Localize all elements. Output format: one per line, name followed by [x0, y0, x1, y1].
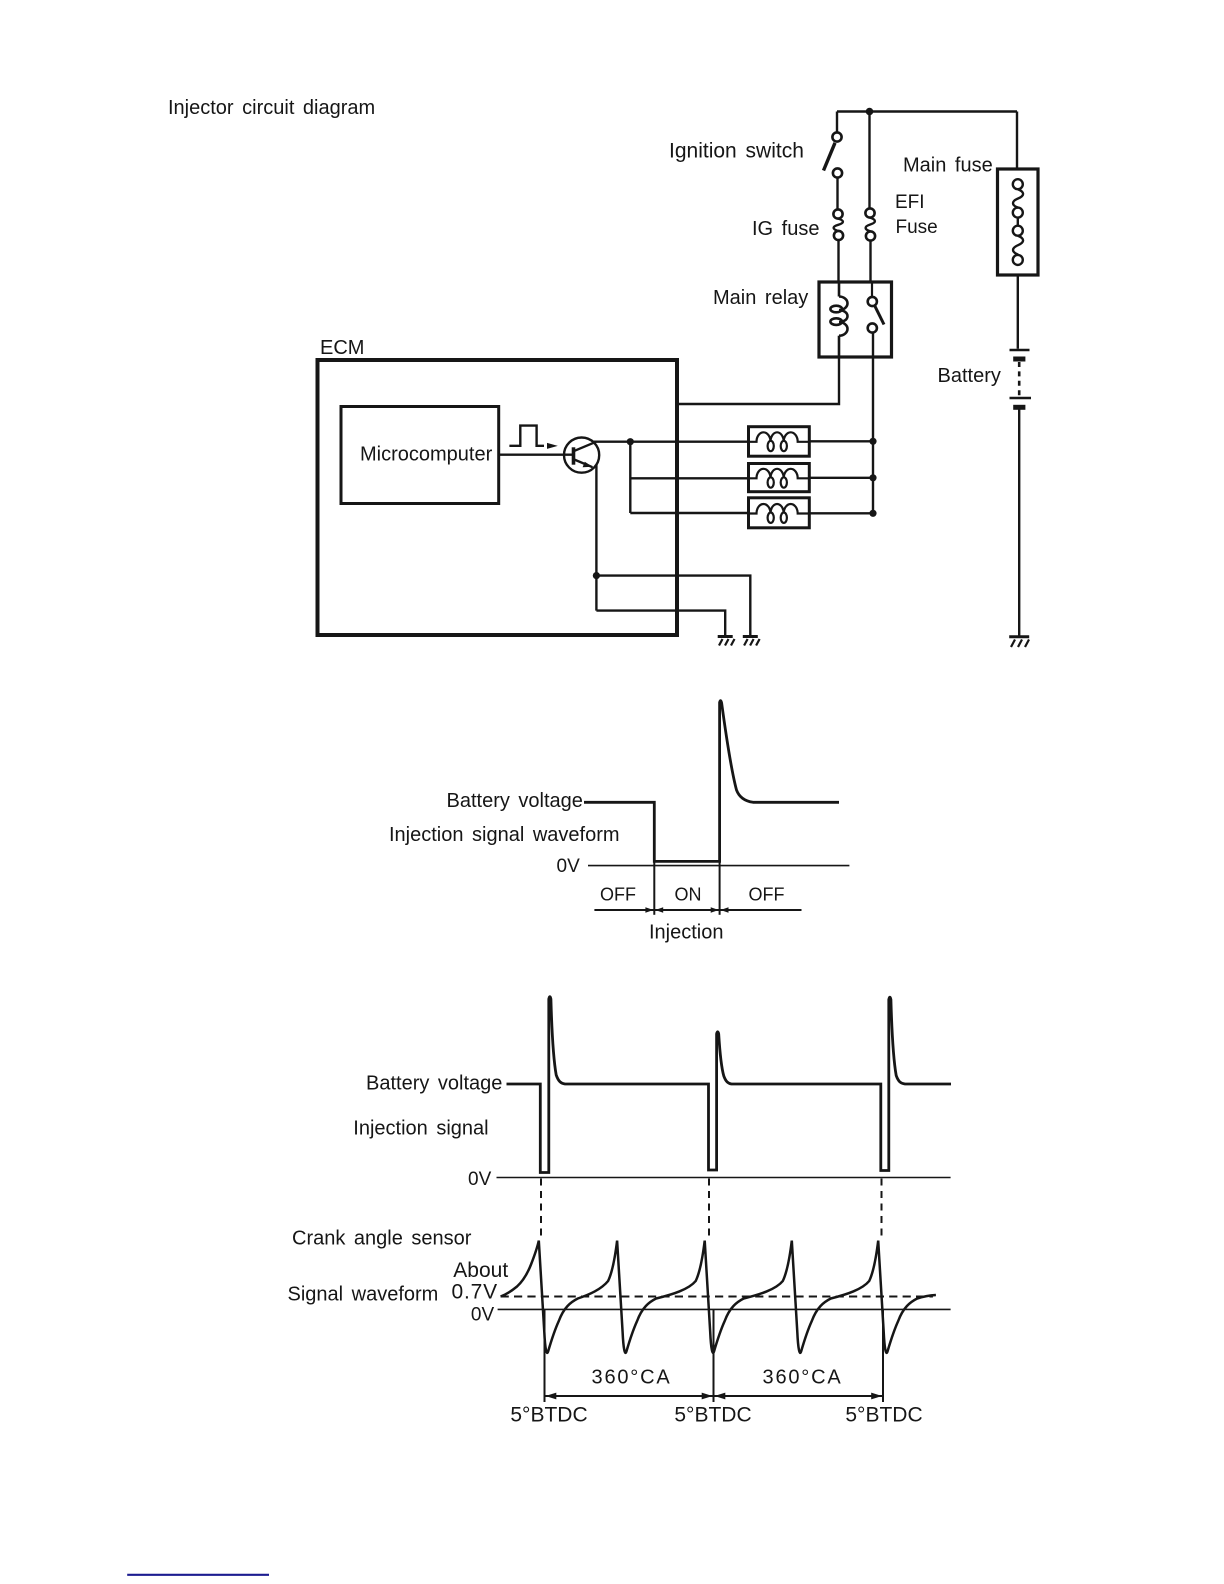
svg-text:0V: 0V: [471, 1305, 495, 1326]
svg-text:Injection signal waveform: Injection signal waveform: [389, 824, 620, 846]
svg-text:Battery voltage: Battery voltage: [447, 790, 583, 812]
svg-text:Injection signal: Injection signal: [353, 1118, 488, 1140]
svg-text:Fuse: Fuse: [896, 217, 938, 238]
svg-text:Battery voltage: Battery voltage: [366, 1073, 502, 1095]
svg-text:Crank angle sensor: Crank angle sensor: [292, 1228, 472, 1250]
svg-text:Signal waveform: Signal waveform: [288, 1284, 439, 1306]
svg-text:Ignition switch: Ignition switch: [669, 140, 804, 163]
svg-text:OFF: OFF: [749, 885, 785, 905]
svg-text:360°CA: 360°CA: [592, 1367, 672, 1389]
svg-text:IG fuse: IG fuse: [752, 218, 819, 240]
svg-text:EFI: EFI: [895, 192, 925, 213]
svg-text:0V: 0V: [557, 856, 581, 877]
svg-text:5°BTDC: 5°BTDC: [845, 1404, 922, 1427]
svg-text:360°CA: 360°CA: [763, 1367, 843, 1389]
svg-text:Main relay: Main relay: [713, 287, 808, 309]
svg-text:Injection: Injection: [649, 922, 724, 944]
svg-text:ECM: ECM: [320, 337, 364, 359]
svg-text:Injector circuit diagram: Injector circuit diagram: [168, 97, 375, 119]
svg-text:0V: 0V: [468, 1169, 492, 1190]
svg-text:OFF: OFF: [600, 885, 636, 905]
svg-text:Microcomputer: Microcomputer: [360, 444, 493, 466]
svg-text:About: About: [453, 1259, 508, 1282]
svg-text:Battery: Battery: [938, 365, 1001, 387]
svg-text:5°BTDC: 5°BTDC: [510, 1404, 587, 1427]
svg-text:ON: ON: [675, 885, 702, 905]
svg-text:Main fuse: Main fuse: [903, 155, 993, 177]
svg-text:0.7V: 0.7V: [452, 1281, 498, 1304]
svg-text:5°BTDC: 5°BTDC: [674, 1404, 751, 1427]
